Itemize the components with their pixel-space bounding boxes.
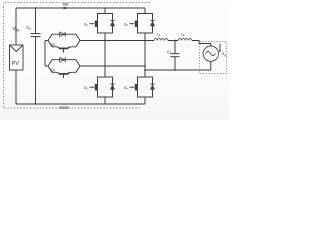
- right leg vertical wire: [144, 8, 146, 104]
- node C1 top: [35, 7, 37, 9]
- outer dashed border: [4, 3, 151, 109]
- svg-text:L2: L2: [181, 32, 185, 37]
- wire jog to grid source: [199, 40, 211, 46]
- smudge on bottom dashed border: [59, 106, 69, 109]
- inductor L2: [178, 32, 192, 40]
- transistor Q3 (upper bypass IGBT): [51, 42, 72, 52]
- mosfet S3 (top-right bridge cell): [124, 14, 155, 34]
- svg-text:Q3: Q3: [51, 42, 56, 47]
- node C1 bottom: [35, 103, 37, 105]
- svg-text:S2: S2: [84, 86, 88, 91]
- ac source Vg circle: [203, 46, 218, 61]
- wire top rail: [16, 7, 145, 9]
- svg-text:S1: S1: [84, 23, 88, 28]
- node line A / left leg: [104, 40, 106, 42]
- svg-text:Q4: Q4: [51, 68, 56, 73]
- transistor Q4 (lower bypass IGBT): [51, 68, 72, 78]
- wire bottom rail: [16, 103, 145, 105]
- svg-text:S4: S4: [124, 86, 128, 91]
- wire bypass branch vertical: [44, 41, 46, 67]
- svg-text:Cf: Cf: [167, 49, 171, 55]
- diode D2 (lower bypass): [60, 58, 66, 62]
- svg-text:PV: PV: [12, 61, 20, 67]
- wire PV+ to top rail: [15, 8, 17, 45]
- mosfet S1 (top-left bridge cell): [84, 14, 115, 34]
- sine wave inside source: [206, 51, 216, 55]
- node line B / right leg: [144, 65, 146, 67]
- node filter cap bottom: [174, 69, 176, 71]
- node filter cap top: [174, 40, 176, 42]
- wire grid source bottom: [210, 61, 212, 70]
- diode D1 (upper bypass): [60, 32, 66, 36]
- svg-text:C1: C1: [27, 25, 32, 31]
- pv module PV: [10, 45, 24, 70]
- mosfet S2 (bottom-left bridge cell): [84, 77, 115, 97]
- bypass lower loop frame: [48, 60, 80, 73]
- capacitor C2 (filter): [167, 41, 180, 71]
- wire line B (bypass to right-leg midpoint): [80, 65, 145, 67]
- node return / right leg: [144, 69, 146, 71]
- wire bypass top tap: [45, 40, 48, 42]
- wire bypass bottom tap: [45, 65, 48, 67]
- grid dashed box: [200, 42, 227, 74]
- mosfet S4 (bottom-right bridge cell): [124, 77, 155, 97]
- inductor L1: [154, 32, 168, 40]
- wire line A (bridge left-leg midpoint to filter): [80, 40, 199, 42]
- capacitor C1: [27, 8, 41, 104]
- current label smudge above top rail: [63, 3, 69, 6]
- wire grid return: [145, 69, 211, 71]
- svg-text:Vg: Vg: [222, 51, 227, 57]
- left leg vertical wire: [104, 8, 106, 104]
- current arrow on top rail: [64, 7, 70, 10]
- wire PV- to bottom rail: [15, 70, 17, 104]
- svg-text:S3: S3: [124, 23, 128, 28]
- bypass upper loop frame: [48, 34, 80, 47]
- voltage arrow Vg: [219, 44, 226, 57]
- svg-text:L1: L1: [157, 32, 161, 37]
